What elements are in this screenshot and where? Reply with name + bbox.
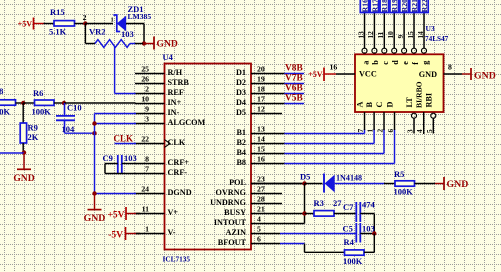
svg-text:C7: C7 bbox=[343, 202, 354, 212]
svg-text:1N4148: 1N4148 bbox=[336, 173, 362, 182]
svg-text:B2: B2 bbox=[236, 138, 246, 147]
resistor R18 vertical (cut at top edge) bbox=[380, 0, 388, 13]
svg-text:V-: V- bbox=[168, 228, 176, 237]
junction bbox=[372, 231, 376, 235]
svg-text:R3: R3 bbox=[314, 198, 324, 208]
svg-text:20: 20 bbox=[257, 65, 265, 74]
ground symbol bottom-left bbox=[23, 153, 25, 169]
wire POL row bbox=[251, 183, 305, 185]
resistor R19 vertical (cut at top edge) bbox=[390, 0, 398, 13]
wire bbox=[54, 102, 64, 104]
svg-text:ICL7135: ICL7135 bbox=[163, 255, 191, 264]
svg-text:LT: LT bbox=[405, 97, 414, 108]
svg-text:R/H: R/H bbox=[168, 68, 183, 77]
resistor R9 2K bbox=[22, 103, 24, 123]
wire B8 to U3 D bbox=[284, 163, 394, 165]
wire bbox=[23, 102, 34, 104]
wire U3 GND to ground bbox=[444, 73, 463, 75]
svg-text:16: 16 bbox=[257, 155, 265, 164]
svg-text:C10: C10 bbox=[67, 103, 82, 113]
wire bbox=[415, 183, 436, 185]
U3 segment output pin b (pin 12) with bubble bbox=[372, 48, 377, 53]
svg-text:R20: R20 bbox=[400, 0, 409, 12]
potentiometer VR2 103 bbox=[95, 40, 130, 48]
svg-text:R21: R21 bbox=[410, 0, 419, 12]
svg-text:C5: C5 bbox=[343, 223, 353, 233]
net label V5B bbox=[284, 103, 304, 105]
wire POL-BUSY-INTOUT vertical bbox=[304, 184, 306, 224]
U3 segment output pin f (pin 15) with bubble bbox=[412, 48, 417, 53]
svg-text:7: 7 bbox=[145, 165, 149, 174]
U4 right pin stubs bbox=[251, 73, 284, 75]
svg-text:GND: GND bbox=[419, 70, 437, 79]
svg-text:28: 28 bbox=[257, 195, 265, 204]
svg-text:100K: 100K bbox=[343, 256, 363, 266]
svg-text:VR2: VR2 bbox=[89, 26, 106, 36]
svg-text:e: e bbox=[401, 61, 410, 65]
svg-text:3: 3 bbox=[406, 129, 415, 133]
svg-text:R6: R6 bbox=[33, 88, 43, 98]
svg-text:a: a bbox=[361, 61, 370, 65]
svg-text:U4: U4 bbox=[163, 52, 174, 62]
svg-text:+5V: +5V bbox=[107, 211, 124, 221]
svg-text:4: 4 bbox=[415, 129, 424, 133]
junction bbox=[22, 150, 26, 154]
svg-text:IN-: IN- bbox=[168, 108, 180, 117]
svg-text:UNDRNG: UNDRNG bbox=[210, 198, 247, 207]
net label V8B bbox=[284, 73, 304, 75]
svg-text:4: 4 bbox=[257, 215, 261, 224]
resistor R15 bbox=[54, 21, 75, 26]
svg-text:C: C bbox=[375, 102, 384, 108]
svg-text:100K: 100K bbox=[394, 187, 414, 197]
wire bbox=[34, 23, 44, 25]
svg-text:V7B: V7B bbox=[285, 73, 303, 83]
junction bbox=[302, 211, 306, 215]
ground symbol middle bbox=[94, 194, 96, 210]
capacitor C5 103 bbox=[355, 223, 357, 243]
svg-text:POL: POL bbox=[229, 178, 246, 187]
svg-text:10: 10 bbox=[386, 31, 395, 39]
svg-text:6: 6 bbox=[257, 235, 261, 244]
U3 pin RBI (5) with bubble bbox=[432, 118, 434, 133]
svg-text:9: 9 bbox=[396, 35, 405, 39]
svg-text:2: 2 bbox=[83, 13, 87, 22]
svg-text:LM385: LM385 bbox=[128, 12, 152, 21]
wire B1 to U3 A bbox=[284, 133, 364, 135]
svg-text:RBI: RBI bbox=[424, 93, 433, 108]
svg-text:CLK: CLK bbox=[168, 138, 186, 147]
svg-text:1: 1 bbox=[145, 225, 149, 234]
capacitor C7 474 bbox=[355, 202, 357, 222]
svg-text:21: 21 bbox=[257, 205, 265, 214]
wire AZIN row bbox=[280, 233, 356, 235]
svg-text:474: 474 bbox=[362, 199, 376, 209]
svg-text:3: 3 bbox=[145, 115, 149, 124]
wire bbox=[85, 23, 113, 25]
U3 input pin A (pin 7) bbox=[364, 112, 366, 130]
svg-text:13: 13 bbox=[356, 31, 365, 39]
svg-text:5: 5 bbox=[257, 225, 261, 234]
svg-text:B4: B4 bbox=[236, 148, 246, 157]
svg-text:V+: V+ bbox=[168, 208, 179, 217]
svg-text:17: 17 bbox=[257, 95, 265, 104]
svg-text:R15: R15 bbox=[50, 7, 65, 17]
svg-text:V8B: V8B bbox=[285, 63, 303, 73]
resistor R21 vertical (cut at top edge) bbox=[410, 0, 418, 13]
svg-text:BI/RBO: BI/RBO bbox=[415, 81, 424, 108]
net label V6B bbox=[284, 93, 304, 95]
svg-text:25: 25 bbox=[141, 65, 149, 74]
svg-text:c: c bbox=[381, 61, 390, 65]
U3 segment output pin a (pin 13) with bubble bbox=[362, 48, 367, 53]
svg-text:1: 1 bbox=[111, 16, 114, 23]
svg-text:12: 12 bbox=[366, 31, 375, 39]
svg-text:2: 2 bbox=[376, 129, 385, 133]
resistor R8 bbox=[0, 100, 16, 105]
wire bbox=[334, 213, 356, 215]
net label V7B bbox=[284, 83, 304, 85]
IC U3 74LS47 box bbox=[355, 54, 444, 112]
svg-text:74LS47: 74LS47 bbox=[425, 35, 449, 43]
svg-text:1: 1 bbox=[366, 129, 375, 133]
junction bbox=[92, 191, 96, 195]
svg-text:8: 8 bbox=[448, 63, 452, 72]
svg-text:R22: R22 bbox=[420, 0, 429, 12]
svg-text:R17: R17 bbox=[370, 0, 379, 12]
svg-text:14: 14 bbox=[257, 135, 265, 144]
wire bbox=[22, 143, 24, 153]
wire IN+ to U4 bbox=[64, 102, 136, 104]
wire bbox=[130, 43, 136, 45]
svg-text:103: 103 bbox=[124, 153, 137, 163]
wire B2 to U3 B bbox=[284, 143, 374, 145]
svg-text:18: 18 bbox=[257, 85, 265, 94]
svg-text:27: 27 bbox=[257, 185, 265, 194]
svg-text:100K: 100K bbox=[32, 107, 52, 117]
svg-text:24: 24 bbox=[141, 185, 149, 194]
svg-text:REF: REF bbox=[168, 88, 184, 97]
IC U4 ICL7135 box bbox=[165, 64, 252, 250]
svg-text:10K: 10K bbox=[0, 106, 11, 116]
svg-text:U3: U3 bbox=[426, 24, 435, 33]
svg-text:D2: D2 bbox=[236, 78, 246, 87]
svg-text:5.1K: 5.1K bbox=[49, 27, 67, 37]
svg-text:V5B: V5B bbox=[285, 93, 303, 103]
U3 input pin C (pin 2) bbox=[383, 112, 385, 130]
svg-text:26: 26 bbox=[141, 75, 149, 84]
svg-text:ALGCOM: ALGCOM bbox=[168, 118, 206, 127]
svg-text:13: 13 bbox=[257, 125, 265, 134]
U4 CLK input wedge bbox=[165, 140, 171, 148]
svg-text:b: b bbox=[371, 60, 380, 65]
svg-text:BFOUT: BFOUT bbox=[218, 238, 247, 247]
U3 input pin D (pin 6) bbox=[394, 112, 396, 130]
svg-text:D3: D3 bbox=[236, 88, 246, 97]
U3 segment output pin d (pin 10) with bubble bbox=[392, 48, 397, 53]
svg-text:D5: D5 bbox=[236, 108, 246, 117]
resistor R3 27 bbox=[305, 213, 315, 215]
resistor R4 100K bbox=[345, 250, 365, 255]
svg-text:23: 23 bbox=[257, 175, 265, 184]
power port GND right of U3 bbox=[470, 68, 472, 80]
U3 segment output pin g (pin 14) with bubble bbox=[422, 48, 427, 53]
svg-text:10: 10 bbox=[141, 95, 149, 104]
wire bbox=[16, 102, 24, 104]
svg-text:B1: B1 bbox=[236, 128, 246, 137]
svg-text:IN+: IN+ bbox=[168, 98, 182, 107]
U3 input pin B (pin 1) bbox=[373, 112, 375, 130]
resistor R16 vertical (cut at top edge) bbox=[360, 0, 368, 13]
capacitor C10 104 bbox=[64, 103, 66, 116]
svg-text:R9: R9 bbox=[28, 123, 38, 133]
svg-text:15: 15 bbox=[406, 31, 415, 39]
wire bbox=[126, 23, 144, 25]
svg-text:-5V: -5V bbox=[108, 231, 123, 241]
U3 segment output pin c (pin 11) with bubble bbox=[382, 48, 387, 53]
svg-text:AZIN: AZIN bbox=[226, 228, 247, 237]
resistor R17 vertical (cut at top edge) bbox=[370, 0, 378, 13]
wire bbox=[360, 213, 374, 215]
svg-text:GND: GND bbox=[474, 71, 496, 82]
svg-text:6: 6 bbox=[386, 129, 395, 133]
junction bbox=[92, 131, 96, 135]
svg-text:27: 27 bbox=[333, 198, 342, 208]
wire bbox=[360, 233, 374, 235]
svg-text:STRB: STRB bbox=[168, 78, 190, 87]
svg-text:BUSY: BUSY bbox=[224, 208, 246, 217]
svg-text:D1: D1 bbox=[236, 68, 246, 77]
diode D5 1N4148 bbox=[323, 174, 325, 193]
wire VR2 wiper to REF bbox=[114, 47, 116, 94]
svg-text:15: 15 bbox=[257, 145, 265, 154]
svg-text:GND: GND bbox=[13, 173, 34, 184]
svg-text:INTOUT: INTOUT bbox=[214, 218, 247, 227]
wire DGND bbox=[95, 193, 137, 195]
svg-text:11: 11 bbox=[142, 205, 149, 214]
resistor R22 vertical (cut at top edge) bbox=[420, 0, 428, 13]
svg-text:R5: R5 bbox=[394, 169, 404, 179]
svg-text:R18: R18 bbox=[380, 0, 389, 12]
svg-text:16: 16 bbox=[330, 63, 338, 72]
svg-text:11: 11 bbox=[376, 31, 385, 38]
svg-text:VCC: VCC bbox=[359, 70, 377, 79]
svg-text:DGND: DGND bbox=[168, 188, 192, 197]
junction bbox=[142, 41, 146, 45]
wire bbox=[335, 183, 384, 185]
resistor R6 100K bbox=[35, 100, 55, 105]
svg-text:14: 14 bbox=[416, 31, 425, 39]
svg-text:CRF+: CRF+ bbox=[168, 158, 190, 167]
wire bbox=[65, 132, 95, 134]
resistor R20 vertical (cut at top edge) bbox=[400, 0, 408, 13]
junction bbox=[62, 101, 66, 105]
svg-text:f: f bbox=[411, 62, 420, 65]
svg-text:CLK: CLK bbox=[114, 134, 134, 144]
resistor R5 100K bbox=[395, 181, 415, 186]
svg-text:GND: GND bbox=[447, 179, 469, 190]
svg-text:D5: D5 bbox=[300, 172, 310, 182]
zener diode ZD1 LM385 bbox=[113, 15, 120, 32]
U3 pin LT (3) with bubble bbox=[413, 118, 415, 133]
junction bbox=[302, 181, 306, 185]
power port GND right of R5 bbox=[443, 177, 445, 190]
svg-text:2: 2 bbox=[145, 85, 149, 94]
svg-text:12: 12 bbox=[257, 105, 265, 114]
wire CRF+ CRF- bbox=[105, 163, 118, 165]
svg-text:V6B: V6B bbox=[285, 83, 303, 93]
svg-text:B: B bbox=[365, 102, 374, 108]
svg-text:OVRNG: OVRNG bbox=[216, 188, 247, 197]
svg-text:R19: R19 bbox=[390, 0, 399, 12]
wire IN- ALGCOM common vertical bbox=[94, 114, 96, 194]
wire bbox=[84, 24, 86, 44]
U3 segment output pin e (pin 9) with bubble bbox=[402, 48, 407, 53]
U3 pin BI/RBO (4) bbox=[423, 112, 425, 134]
power port GND top bbox=[145, 43, 154, 45]
svg-text:CRF-: CRF- bbox=[168, 168, 188, 177]
junction bbox=[92, 121, 96, 125]
wire bbox=[364, 251, 374, 253]
svg-text:22: 22 bbox=[141, 135, 149, 144]
wire from left edge bbox=[0, 152, 24, 154]
svg-text:R4: R4 bbox=[344, 237, 355, 247]
wire bbox=[75, 23, 86, 25]
svg-text:103: 103 bbox=[121, 29, 134, 39]
svg-text:D4: D4 bbox=[236, 98, 246, 107]
svg-text:7: 7 bbox=[356, 129, 365, 133]
svg-text:B8: B8 bbox=[236, 158, 246, 167]
svg-text:A: A bbox=[356, 102, 365, 108]
svg-text:8: 8 bbox=[145, 155, 149, 164]
wire bbox=[305, 183, 323, 185]
svg-text:GND: GND bbox=[84, 213, 106, 224]
svg-text:5: 5 bbox=[425, 129, 434, 133]
junction bbox=[21, 101, 25, 105]
svg-text:R16: R16 bbox=[360, 0, 369, 12]
svg-text:+5V: +5V bbox=[18, 20, 33, 29]
svg-text:GND: GND bbox=[157, 38, 178, 49]
U4 left pin stubs bbox=[135, 73, 165, 75]
svg-text:19: 19 bbox=[257, 75, 265, 84]
svg-text:R8: R8 bbox=[0, 86, 3, 96]
svg-text:D: D bbox=[386, 102, 395, 108]
svg-text:9: 9 bbox=[145, 105, 149, 114]
wire B4 to U3 C bbox=[284, 153, 384, 155]
svg-text:2K: 2K bbox=[28, 132, 39, 142]
svg-text:d: d bbox=[391, 60, 400, 65]
svg-text:+5V: +5V bbox=[308, 70, 323, 79]
wire BFOUT row to R4 bbox=[280, 243, 305, 245]
svg-text:C9: C9 bbox=[103, 153, 113, 163]
